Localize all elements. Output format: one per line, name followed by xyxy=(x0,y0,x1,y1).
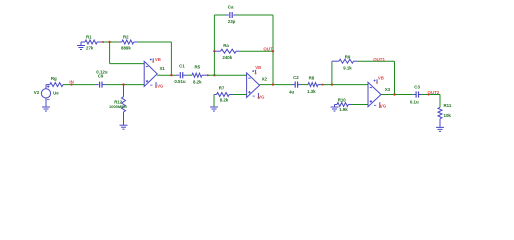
ground under R12 xyxy=(120,125,128,129)
wire Ca loop left vertical xyxy=(213,15,215,75)
node R9 loop tap xyxy=(331,83,333,85)
wire X1 output xyxy=(157,74,176,76)
wire R5 to X2 minus xyxy=(208,74,247,76)
svg-text:VG: VG xyxy=(258,94,265,99)
svg-text:C2: C2 xyxy=(293,75,299,80)
svg-text:1.9k: 1.9k xyxy=(339,107,348,112)
wire Ca loop right vertical xyxy=(272,15,274,85)
svg-text:C3: C3 xyxy=(414,85,420,90)
voltage source V2 xyxy=(34,85,59,99)
wire R9 right vertical xyxy=(394,61,396,94)
node R8 lead xyxy=(322,84,324,86)
svg-text:VB: VB xyxy=(378,75,384,80)
svg-text:889k: 889k xyxy=(121,45,131,50)
resistor R8 xyxy=(307,76,323,94)
svg-text:R9: R9 xyxy=(345,55,351,60)
resistor Ra xyxy=(214,43,240,60)
wire R9 left lead xyxy=(332,60,339,62)
wire R9 to OUT1 corner xyxy=(357,60,395,62)
ground under R11 xyxy=(436,127,444,131)
svg-text:Ue: Ue xyxy=(53,91,59,96)
resistor R5 xyxy=(192,64,208,84)
svg-text:Ca: Ca xyxy=(228,4,234,9)
node Ca loop tap xyxy=(213,74,215,76)
svg-text:R10: R10 xyxy=(338,97,347,102)
wire C3 to corner xyxy=(422,94,440,96)
svg-text:VB: VB xyxy=(255,65,261,70)
capacitor C9 xyxy=(95,69,108,87)
svg-text:240k: 240k xyxy=(222,55,232,60)
resistor R7 xyxy=(217,86,233,103)
wire R9 left vertical xyxy=(331,61,333,84)
svg-text:8.2k: 8.2k xyxy=(220,98,229,103)
node X2 out Ca loop xyxy=(272,83,274,85)
node Ra left xyxy=(213,50,215,52)
node OUT xyxy=(263,47,274,53)
wire R1 to R2 xyxy=(103,41,119,43)
ground left of R10 xyxy=(331,105,339,112)
wire R7 to X2 plus xyxy=(233,94,247,96)
svg-text:R2: R2 xyxy=(123,34,129,39)
svg-text:R11: R11 xyxy=(444,103,452,108)
node R5 lead xyxy=(207,74,209,76)
resistor R2 xyxy=(119,34,137,50)
wire junction to X1 minus xyxy=(110,42,145,64)
resistor Rg xyxy=(50,76,63,87)
wire corner down to R11 xyxy=(439,95,441,108)
ground under R7 xyxy=(210,95,218,112)
svg-text:4u: 4u xyxy=(289,90,294,95)
svg-text:1.3k: 1.3k xyxy=(307,89,316,94)
node OUT1 xyxy=(373,57,385,62)
wire C2 to R8 xyxy=(301,84,308,86)
wire R8 to X3 minus xyxy=(323,84,368,86)
node OUT2 xyxy=(428,90,440,96)
wire R10 to X3 plus xyxy=(352,104,368,106)
wire feedback vertical X1 xyxy=(170,42,172,75)
capacitor Ca xyxy=(226,4,237,24)
node X1 feedback tap xyxy=(170,74,172,76)
svg-text:9.1k: 9.1k xyxy=(343,66,352,71)
svg-text:8.2k: 8.2k xyxy=(193,79,202,84)
op-amp X2 xyxy=(247,65,268,99)
resistor R11 xyxy=(438,103,452,127)
svg-text:0.51u: 0.51u xyxy=(174,79,186,84)
op-amp X1 xyxy=(144,57,165,88)
capacitor C3 xyxy=(410,85,422,105)
svg-text:X2: X2 xyxy=(262,77,268,82)
capacitor C2 xyxy=(289,75,301,95)
resistor R9 xyxy=(339,55,357,71)
svg-text:OUT1: OUT1 xyxy=(373,57,385,62)
node R1 R2 junction xyxy=(108,41,110,43)
svg-text:C9: C9 xyxy=(98,74,104,79)
svg-text:OUT: OUT xyxy=(263,47,273,52)
resistor R10 xyxy=(335,97,353,112)
wire C1 to R5 xyxy=(187,74,192,76)
wire R2 to feedback corner xyxy=(137,41,171,43)
wire R7 ground segment xyxy=(214,94,217,96)
svg-text:R1: R1 xyxy=(86,34,92,39)
node R1 lead xyxy=(102,41,104,43)
svg-text:R8: R8 xyxy=(309,76,315,81)
op-amp X3 xyxy=(368,75,391,108)
svg-text:R5: R5 xyxy=(195,64,201,69)
wire C9 to X1+ xyxy=(107,84,145,86)
svg-text:R7: R7 xyxy=(219,86,225,91)
wire X2 output xyxy=(260,84,292,86)
resistor R12 xyxy=(109,85,127,125)
svg-text:23p: 23p xyxy=(228,19,236,24)
node X3 out feedback xyxy=(393,93,395,95)
svg-text:1000MEG: 1000MEG xyxy=(109,104,127,109)
svg-text:X3: X3 xyxy=(385,87,391,92)
svg-text:Rg: Rg xyxy=(51,76,57,81)
svg-text:VG: VG xyxy=(380,103,387,108)
wire Rg to C9 xyxy=(63,84,95,86)
svg-text:10k: 10k xyxy=(444,113,452,118)
svg-text:0.1u: 0.1u xyxy=(410,100,419,105)
wire Ca loop top right xyxy=(237,14,274,16)
wire Ca loop top left xyxy=(214,14,225,16)
svg-text:Ra: Ra xyxy=(223,43,229,48)
resistor R1 xyxy=(81,34,103,50)
svg-text:X1: X1 xyxy=(160,66,166,71)
svg-text:27k: 27k xyxy=(86,45,94,50)
node IN xyxy=(69,79,73,85)
svg-text:VG: VG xyxy=(157,84,164,89)
wire Ra to OUT corner xyxy=(240,50,273,52)
svg-text:C1: C1 xyxy=(179,63,185,68)
capacitor C1 xyxy=(174,63,187,84)
svg-text:VB: VB xyxy=(155,57,161,62)
wire V2 top lead xyxy=(46,85,50,89)
svg-text:V2: V2 xyxy=(34,90,40,95)
ground under V2 xyxy=(42,98,50,111)
node R12 junction xyxy=(122,83,124,85)
ground left of R1 xyxy=(77,42,85,50)
wire X3 output xyxy=(381,94,413,96)
